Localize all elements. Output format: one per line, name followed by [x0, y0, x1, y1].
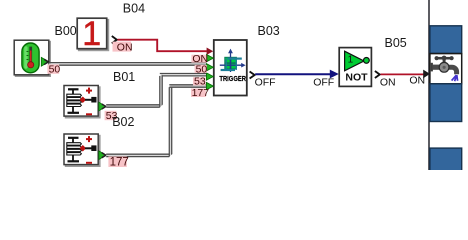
value label 53 at B03 input 3 [193, 76, 206, 88]
svg-text:B01: B01 [113, 70, 135, 84]
pin B02 output [99, 151, 106, 160]
svg-text:B00: B00 [55, 24, 77, 38]
svg-text:OFF: OFF [255, 77, 276, 89]
block B01 potentiometer [64, 86, 100, 118]
output rail empty slot 1 [430, 26, 462, 54]
svg-text:1: 1 [348, 55, 354, 66]
output Q1 cell (valve) [430, 54, 462, 84]
output rail empty slot 3 [430, 148, 462, 171]
pin B01 output [99, 102, 106, 111]
value label 50 at B00 output [47, 64, 60, 76]
svg-text:NOT: NOT [345, 71, 368, 83]
svg-text:1: 1 [82, 15, 101, 53]
svg-text:B05: B05 [385, 36, 407, 50]
valve icon [431, 56, 458, 82]
svg-text:B02: B02 [112, 115, 134, 129]
arrowhead ON wire at B03 [207, 48, 214, 55]
wire ON from B04 to B03 input 1 [118, 40, 207, 52]
wire 177 from B02 to B03 input 4 [106, 85, 206, 157]
arrowhead ON wire at output Q1 [423, 70, 430, 79]
block B02 potentiometer [64, 134, 100, 166]
arrowhead OFF wire at B05 [330, 70, 339, 79]
wire ON from B05 to output Q1 [381, 73, 425, 75]
wire 53 from B01 to B03 input 3 [106, 74, 206, 108]
pin B03 input 3 [206, 73, 213, 80]
svg-text:53: 53 [194, 76, 206, 88]
pin B00 output [41, 57, 48, 66]
block B00 thermometer analog input [14, 40, 50, 76]
output rail empty slot 2 [430, 84, 462, 122]
svg-text:50: 50 [196, 63, 208, 75]
pin B04 output [112, 36, 117, 43]
pin B05 output [375, 71, 380, 78]
value label 177 at B02 output [108, 156, 128, 168]
pin B03 output [250, 72, 255, 79]
svg-text:TRIGGER: TRIGGER [219, 74, 246, 83]
svg-text:50: 50 [49, 64, 61, 76]
block B04 constant 1 [77, 15, 108, 53]
svg-text:OFF: OFF [313, 77, 334, 89]
value label 177 at B03 input 4 [191, 87, 209, 99]
svg-text:B03: B03 [258, 24, 280, 38]
svg-text:ON: ON [117, 41, 133, 53]
svg-text:177: 177 [110, 157, 129, 169]
svg-text:B04: B04 [123, 2, 145, 16]
output rail border line [428, 0, 430, 170]
svg-text:177: 177 [192, 87, 210, 99]
value label 53 at B01 output [105, 110, 118, 122]
svg-text:ON: ON [409, 74, 425, 86]
pin B03 input 1 [206, 54, 213, 61]
svg-text:ON: ON [380, 77, 396, 89]
wire OFF from B03 to B05 [255, 73, 331, 75]
pin B03 input 4 [206, 82, 213, 89]
pin B03 input 2 [206, 64, 213, 71]
value label ON at B04 output [113, 41, 133, 53]
value label ON at B03 input 1 [191, 53, 208, 65]
value label 50 at B03 input 2 [195, 63, 208, 75]
block B05 NOT gate [339, 48, 371, 87]
block B03 trigger [214, 40, 247, 96]
wire 50 from B00 to B03 input 2 [49, 63, 207, 66]
